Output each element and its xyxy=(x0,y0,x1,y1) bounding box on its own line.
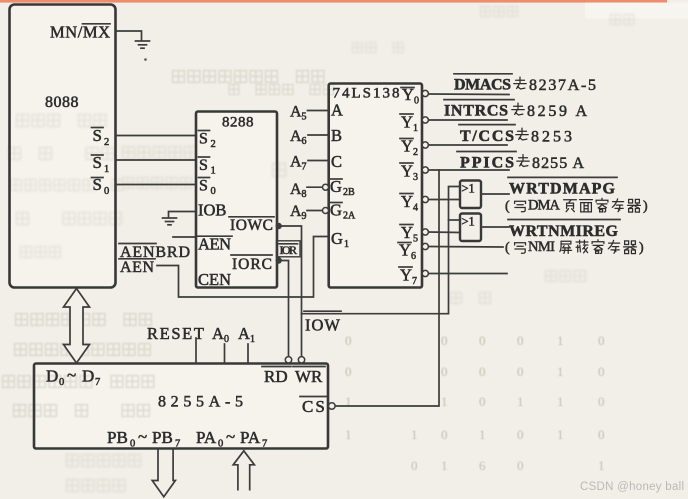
svg-text:1: 1 xyxy=(104,164,109,175)
svg-text:CS: CS xyxy=(302,397,327,416)
svg-text:0: 0 xyxy=(104,186,109,197)
svg-text:1: 1 xyxy=(479,427,486,442)
svg-text:Y: Y xyxy=(401,223,413,242)
svg-text:0: 0 xyxy=(517,333,524,348)
wire IOWC down to WR and IOW branch xyxy=(277,226,302,357)
svg-text:1: 1 xyxy=(211,166,216,177)
svg-text:8088: 8088 xyxy=(45,94,79,111)
svg-text:PB: PB xyxy=(152,428,173,447)
svg-text:S: S xyxy=(199,157,208,174)
svg-text:0: 0 xyxy=(598,394,605,409)
svg-text:WRTNMIREG: WRTNMIREG xyxy=(509,223,619,240)
wire buffer1 out xyxy=(481,193,509,195)
svg-text:1: 1 xyxy=(411,427,418,442)
svg-text:0: 0 xyxy=(211,186,216,197)
svg-text:0: 0 xyxy=(479,364,486,379)
bubble WR xyxy=(298,357,304,363)
wire A1 drop xyxy=(247,344,249,364)
net label WRTDMAPG xyxy=(508,177,617,197)
svg-text:8255 A: 8255 A xyxy=(532,155,584,172)
pin CS xyxy=(300,397,327,417)
svg-text:0: 0 xyxy=(130,439,135,450)
wire Y6 out xyxy=(428,246,503,249)
svg-text:S: S xyxy=(199,178,208,195)
top salmon bar xyxy=(0,0,667,3)
wire Y5 to buffer2 xyxy=(428,231,460,234)
svg-text:AEN: AEN xyxy=(198,235,231,254)
net label DMACS to 8237A-5 xyxy=(454,74,596,94)
svg-text:T/CCS: T/CCS xyxy=(460,128,514,145)
svg-text:D: D xyxy=(46,367,58,386)
pin G2A xyxy=(329,201,356,222)
pin Y2 xyxy=(400,137,428,159)
wire buffer2 out xyxy=(481,226,509,228)
ground G1 xyxy=(136,41,150,61)
svg-text:RD: RD xyxy=(264,367,288,386)
svg-text:0: 0 xyxy=(598,427,605,442)
label RESET A0 A1 xyxy=(147,324,255,345)
net label T/CCS to 8253 xyxy=(459,125,572,146)
svg-text:D: D xyxy=(82,367,94,386)
svg-text:0: 0 xyxy=(345,364,352,379)
svg-text:1: 1 xyxy=(557,333,564,348)
pin PB0~PB7 PA0~PA7 xyxy=(107,427,267,450)
pin S1 (8088) xyxy=(92,153,110,175)
pin G1 xyxy=(331,229,349,250)
svg-text:C: C xyxy=(331,152,342,171)
wire S0 xyxy=(116,184,197,186)
svg-text:(: ( xyxy=(505,241,510,256)
svg-text:A: A xyxy=(331,101,343,120)
pin S2 (8088) xyxy=(92,126,110,148)
svg-text:0: 0 xyxy=(441,364,448,379)
net label WRTNMIREG xyxy=(508,220,620,241)
svg-text:IOW: IOW xyxy=(305,316,340,335)
wire A0 drop xyxy=(224,344,226,364)
svg-text:7: 7 xyxy=(302,162,307,173)
pin Y3 xyxy=(400,162,428,184)
svg-text:A: A xyxy=(212,324,224,343)
net label INTRCS to 8259A xyxy=(444,100,587,120)
bubble RD xyxy=(285,357,291,363)
svg-text:A: A xyxy=(290,203,302,220)
ppi U4 8255A-5 box xyxy=(34,364,328,449)
pin D0~D7 xyxy=(46,366,100,389)
pin RD xyxy=(262,367,291,387)
svg-text:WRTDMAPG: WRTDMAPG xyxy=(509,181,616,198)
bubble CS xyxy=(329,403,336,410)
svg-text:IOR: IOR xyxy=(280,243,298,257)
svg-text:0: 0 xyxy=(517,364,524,379)
svg-text:8288: 8288 xyxy=(222,115,254,131)
svg-text:0: 0 xyxy=(441,427,448,442)
svg-text:S: S xyxy=(199,131,208,148)
svg-text:7: 7 xyxy=(95,377,100,388)
svg-text:): ) xyxy=(643,199,648,214)
pin IORC xyxy=(231,255,272,273)
svg-text:9: 9 xyxy=(302,211,307,222)
svg-text:(: ( xyxy=(505,199,510,214)
wire Y3 out xyxy=(428,169,509,171)
node A5 xyxy=(290,104,329,123)
pin Y4 xyxy=(400,192,428,214)
svg-text:0: 0 xyxy=(479,394,486,409)
pin Y6 xyxy=(398,241,428,263)
chip interiors (lighter paper) xyxy=(11,6,114,286)
CPU U1 8088 box xyxy=(10,5,116,288)
svg-text:PA: PA xyxy=(240,428,261,447)
svg-text:4: 4 xyxy=(413,203,418,214)
svg-text:6: 6 xyxy=(302,136,307,147)
svg-text:IOWC: IOWC xyxy=(230,217,273,234)
pin MN/MX xyxy=(50,23,110,42)
wire Y1 out xyxy=(428,119,507,121)
wire Y0 out xyxy=(428,93,509,96)
decoder U3 74LS138 box xyxy=(329,84,422,288)
svg-text:0: 0 xyxy=(59,377,64,388)
svg-text:2: 2 xyxy=(104,137,109,148)
wire IOB to ground xyxy=(169,212,197,218)
bus arrow D0-D7 (8088 to 8255) xyxy=(64,289,90,364)
svg-text:0: 0 xyxy=(479,333,486,348)
node A6 xyxy=(290,128,329,147)
svg-text:Y: Y xyxy=(401,113,413,132)
wire S2 xyxy=(116,135,197,137)
svg-text:0: 0 xyxy=(598,364,605,379)
bus controller U2 8288 box xyxy=(196,112,277,288)
svg-text:0: 0 xyxy=(411,458,418,473)
svg-text:A: A xyxy=(238,324,250,343)
net tag IOR box xyxy=(277,241,301,257)
svg-text:2B: 2B xyxy=(343,187,355,198)
svg-text:7: 7 xyxy=(412,276,417,287)
pin Y1 xyxy=(400,113,428,135)
svg-text:PB: PB xyxy=(107,428,128,447)
svg-text:INTRCS: INTRCS xyxy=(444,103,508,120)
svg-text:1: 1 xyxy=(413,123,418,134)
svg-text:>1: >1 xyxy=(462,182,475,196)
svg-text:CEN: CEN xyxy=(198,270,231,289)
svg-text:6: 6 xyxy=(411,251,416,262)
pin AEN (8288) xyxy=(197,235,232,254)
svg-text:6: 6 xyxy=(479,458,486,473)
svg-text:1: 1 xyxy=(557,364,564,379)
junction IORC xyxy=(276,257,282,263)
node A9 with bubble xyxy=(290,203,329,222)
wire IORC down to RD xyxy=(277,261,289,357)
svg-text:8237A-5: 8237A-5 xyxy=(529,77,596,94)
svg-text:3: 3 xyxy=(413,172,418,183)
svg-text:0: 0 xyxy=(414,96,419,107)
svg-text:1: 1 xyxy=(250,334,255,345)
pin S2 (8288) xyxy=(199,131,216,151)
pin S0 (8288) xyxy=(199,178,216,198)
svg-text:CSDN @honey ball: CSDN @honey ball xyxy=(580,481,684,493)
svg-text:0: 0 xyxy=(441,333,448,348)
pin Y7 xyxy=(399,266,428,288)
svg-text:NMI: NMI xyxy=(528,239,555,255)
caption (write DMA page register) xyxy=(505,198,648,215)
svg-text:0: 0 xyxy=(598,333,605,348)
wire Y4 to buffer1 xyxy=(428,199,460,201)
svg-text:WR: WR xyxy=(295,367,323,386)
svg-text:2: 2 xyxy=(211,139,216,150)
pin IOWC xyxy=(229,217,274,234)
node A7 xyxy=(290,154,329,173)
node A8 with bubble xyxy=(290,181,329,200)
svg-text:A: A xyxy=(290,181,302,198)
svg-text:G: G xyxy=(331,229,343,248)
wire S1 xyxy=(116,159,197,161)
wire MN/MX to ground xyxy=(116,31,142,41)
net label PPICS to 8255A xyxy=(457,152,584,173)
svg-text:1: 1 xyxy=(517,394,524,409)
svg-text:A: A xyxy=(290,154,302,171)
svg-text:2A: 2A xyxy=(343,211,356,222)
caption (write NMI mask register) xyxy=(505,239,644,256)
svg-text:S: S xyxy=(93,126,102,145)
svg-text:1: 1 xyxy=(557,394,564,409)
net label IOW xyxy=(304,311,341,334)
bus arrow PA in xyxy=(233,451,254,491)
wire Y7 out xyxy=(428,273,507,275)
svg-text:DMACS: DMACS xyxy=(454,77,511,94)
svg-text:2: 2 xyxy=(413,147,418,158)
svg-text:8: 8 xyxy=(302,189,307,200)
wire AENBRD stub to 8288 AEN xyxy=(173,236,196,238)
svg-text:Y: Y xyxy=(401,162,413,181)
svg-text:PPICS: PPICS xyxy=(460,155,514,172)
svg-text:A: A xyxy=(290,104,302,121)
svg-text:7: 7 xyxy=(175,439,180,450)
svg-text:~: ~ xyxy=(138,427,147,446)
svg-text:8255A-5: 8255A-5 xyxy=(158,394,243,411)
pin S1 (8288) xyxy=(199,157,216,177)
pin WR xyxy=(293,367,325,387)
svg-text:1: 1 xyxy=(441,458,448,473)
wire Y3 to CS of 8255 xyxy=(335,170,439,406)
svg-text:1: 1 xyxy=(345,427,352,442)
svg-text:7: 7 xyxy=(262,439,267,450)
svg-text:~: ~ xyxy=(67,366,76,385)
junction IOWC xyxy=(276,223,282,229)
svg-text:0: 0 xyxy=(218,439,223,450)
svg-text:IOB: IOB xyxy=(198,201,226,220)
svg-text:>1: >1 xyxy=(462,215,475,229)
pin G2B xyxy=(329,177,355,198)
pin Y5 xyxy=(400,223,428,245)
pin Y0 xyxy=(401,85,428,107)
or-gate B2 xyxy=(460,214,481,242)
svg-text:Y: Y xyxy=(401,192,413,211)
svg-text:1: 1 xyxy=(344,239,349,250)
svg-text:IORC: IORC xyxy=(232,256,272,273)
svg-text:0: 0 xyxy=(517,427,524,442)
svg-text:): ) xyxy=(639,241,644,256)
svg-text:1: 1 xyxy=(441,394,448,409)
svg-text:74LS138: 74LS138 xyxy=(333,86,400,102)
svg-text:~: ~ xyxy=(226,427,235,446)
svg-text:5: 5 xyxy=(413,234,418,245)
svg-text:PA: PA xyxy=(196,428,217,447)
wire IOW branch xyxy=(302,187,461,314)
svg-text:AEN: AEN xyxy=(120,259,154,276)
svg-text:1: 1 xyxy=(557,427,564,442)
svg-text:Y: Y xyxy=(400,266,412,285)
svg-text:1: 1 xyxy=(598,458,605,473)
pin S0 (8088) xyxy=(92,175,110,197)
svg-text:MN/MX: MN/MX xyxy=(50,23,110,42)
svg-text:5: 5 xyxy=(302,112,307,123)
net AEN label xyxy=(119,259,155,276)
svg-text:0: 0 xyxy=(517,458,524,473)
or-gate B1 xyxy=(460,181,481,209)
svg-text:A: A xyxy=(290,128,302,145)
svg-text:B: B xyxy=(331,126,342,145)
ground G2 xyxy=(163,218,177,225)
wire AEN to G1 of decoder xyxy=(157,237,329,298)
wire Y2 out xyxy=(428,144,507,146)
wire to buffer2 top input xyxy=(449,219,461,221)
wire RESET drop xyxy=(195,338,197,364)
svg-text:DMA: DMA xyxy=(528,198,561,214)
svg-text:0: 0 xyxy=(345,333,352,348)
bus arrow PB out xyxy=(152,449,175,497)
pin AENBRD label xyxy=(119,244,190,262)
